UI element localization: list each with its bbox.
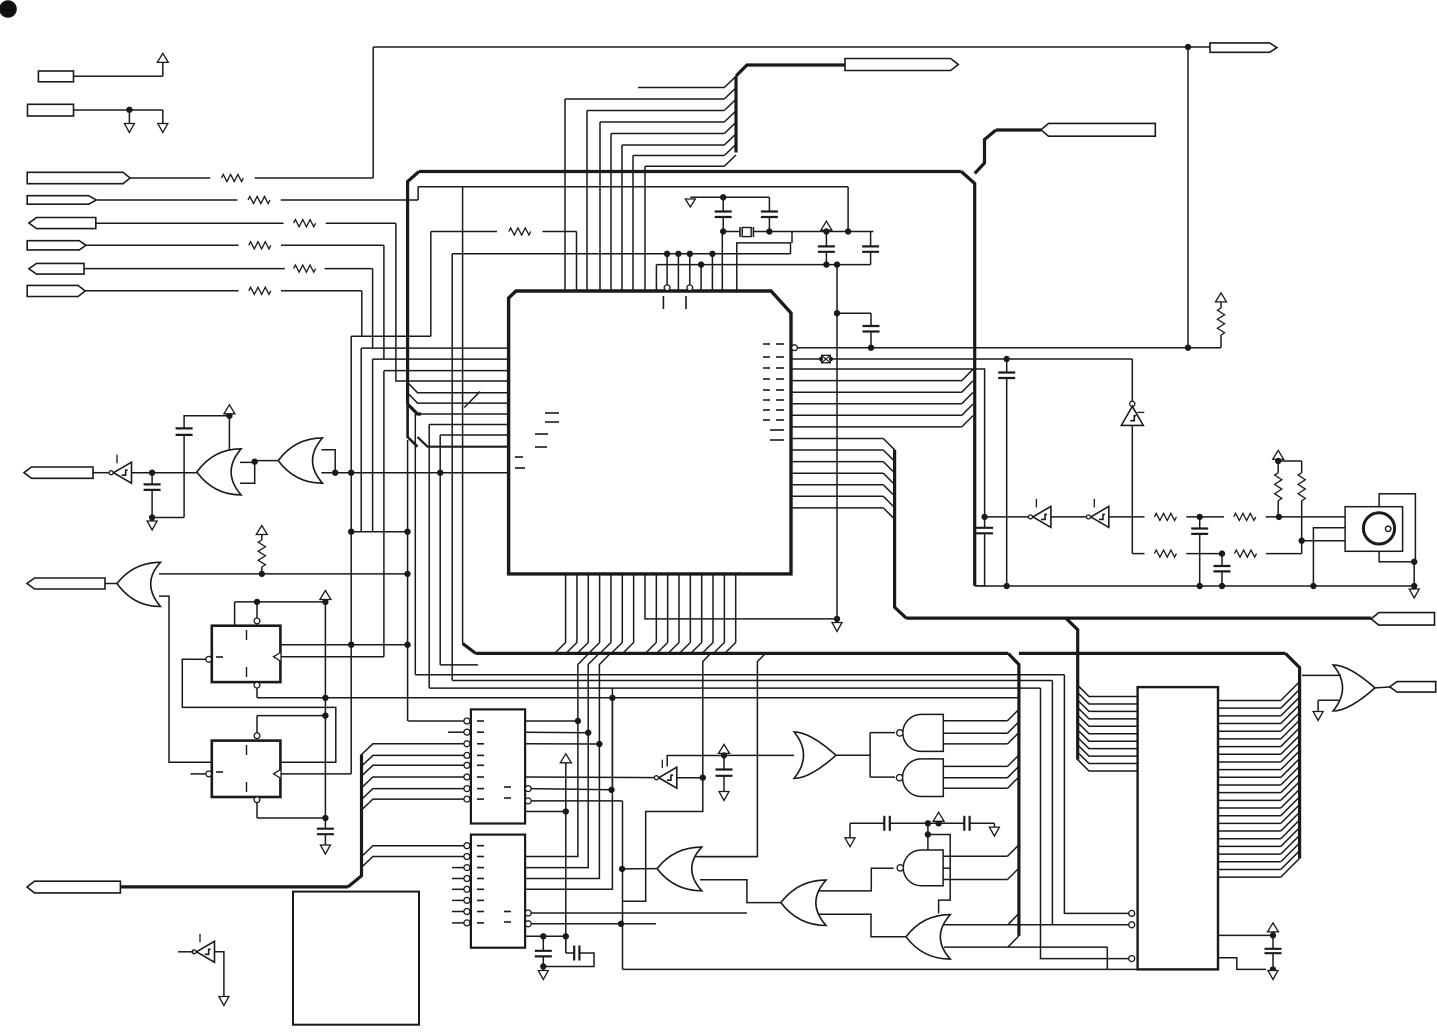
pin bubble r347 [792,345,798,351]
ground arrow G11 [219,997,229,1006]
wire net347 [797,347,1221,349]
wire C3 down [825,252,827,265]
ground arrow G6 [538,971,548,980]
node n702 [700,775,705,780]
node n460 [252,459,257,464]
or gate U14 [781,880,826,925]
wire U15 in1 [944,913,1132,924]
connector box J2 [28,104,74,116]
rail 674 [415,674,1064,676]
wire P5 drop [372,269,374,349]
node n698a [323,695,328,700]
node n253c [687,251,692,256]
fiducial dot [0,1,16,18]
wire osc line [985,516,1028,518]
wire U6 q [280,644,407,646]
wires U13 bus [943,845,1019,880]
connector flag P4 [27,241,86,250]
wire U2 out [132,472,197,474]
wire R8 [1220,301,1222,348]
wire deco rail [850,822,994,824]
node n586d [1311,583,1316,588]
ground arrow G12 [1409,589,1419,598]
node n871 [868,345,873,350]
logic-low arrow 1 [124,124,134,133]
wire U17 in1 [1302,674,1341,676]
wire peel 577 [578,653,589,721]
wire drop 440 [439,435,441,665]
nand gate U12 [896,759,943,797]
ground arrow G8 [989,827,999,836]
wire P3 drop [396,223,509,381]
power arrow V4 [224,405,235,414]
wire CN1 stub1 [408,720,464,722]
node n755 [721,753,726,758]
wire U22 down [1132,425,1144,553]
wire U9 out [622,868,657,870]
wire CN1 right3 [525,743,599,745]
node nosc1 [1197,514,1202,519]
wire CN1 bottom [525,811,566,813]
wire cap drop 1007 [1006,359,1008,373]
wire J2 [74,110,163,124]
node tie-b [405,529,410,534]
node n253b [676,251,681,256]
resistor R2 [248,196,270,203]
wire xnet risers [656,232,722,292]
wire pin424 [429,425,508,689]
wire peel 599 [599,653,610,744]
wires U11 bus [943,709,1019,744]
connector CN2 [471,835,525,948]
capacitor C8 [176,428,193,435]
wire U16 step [1218,958,1266,970]
resistor R3 [294,220,316,227]
power arrow V11 [1273,450,1284,459]
node ndeco3 [925,832,930,837]
or gate U17 [1333,665,1375,711]
power arrow V7 [560,754,571,763]
inverter U22 [1121,406,1144,425]
wire U6 top [235,602,326,626]
wire C5 down [870,332,872,348]
wire U16 b1 [1064,675,1128,914]
bus U1 right [791,369,985,618]
wire CN2 right b [525,733,588,868]
node n415 [227,413,232,418]
bus rail top left bend [408,172,419,405]
node n264c [834,262,839,267]
power arrow V3 [1216,293,1227,302]
capacitor C2 [761,212,778,218]
power arrow V9 [933,812,944,821]
wire C15 [1272,935,1274,970]
wire U4 back [321,450,335,473]
wire rail969 up [1106,947,1108,969]
wire cap1 dn [542,956,544,970]
wire U19 out [215,952,224,997]
wire c7 gnd [152,490,184,518]
capacitor C13 [884,816,890,831]
wire U16 cap net [1218,934,1273,936]
pin bubble t1 [664,285,670,291]
wire U16 b3 [1041,688,1129,959]
or gate U15 [906,915,950,960]
wire net47 [373,46,1210,48]
wire U17 out [1375,686,1390,689]
bus rail mid [906,616,1371,619]
wire R14 [1277,461,1279,517]
bus branch bigbox right [1285,653,1299,858]
wire P12 [105,583,117,585]
or gate U3 [197,449,241,495]
wire clk drop D [350,336,352,774]
wire U6 bottom [256,688,258,698]
wire V11 [1278,459,1302,461]
wire R15 [1301,461,1303,541]
ground arrow G3 [147,521,157,530]
wire U7 top [257,716,325,733]
wire osc line2 [1109,516,1345,518]
wire P3 [96,222,396,224]
wire U10 to U12 [870,776,895,778]
node c1 [575,718,580,723]
wire flag2 feed [975,130,1041,174]
node n47 [1185,44,1190,49]
wire deco gnd r [993,823,995,827]
pin bubble CN1 r1 [525,786,531,792]
wire P3 jog to U1 [384,370,509,372]
node n347a [1185,345,1190,350]
wire net231 left [431,232,577,337]
ground arrow G7 [845,838,855,847]
wire osc gnd pin [1313,528,1345,586]
inverter U2 [109,455,131,484]
wire C17 [1199,517,1201,586]
wire C9 gnd [324,834,326,845]
resistor R12 [1154,550,1176,557]
ground arrow G2 [832,623,842,632]
bus rail top right bend [961,172,974,586]
wire cap2 net [566,936,574,953]
wire cap1 gnd [542,936,544,951]
node n540 [1299,538,1304,543]
wire V8 cap [724,754,794,770]
connector flag P7 [845,59,958,71]
node n573b [405,571,410,576]
node n811 [563,809,568,814]
wire CN1 right4 [525,776,655,779]
resistor R13 [1235,550,1257,557]
wire net47 drop [1187,47,1189,348]
resistor R11 [1234,513,1256,520]
node n601b [323,599,328,604]
power arrow VCC1 [157,53,168,62]
node n936b [563,934,568,939]
connector flag P12 [27,578,105,589]
bus flag13 [120,885,348,888]
wire net359 [791,359,1132,401]
pin bubble U16a [1129,910,1135,916]
wire net313 [837,313,871,326]
wire P6 [85,290,362,292]
wire P6 jog [351,335,431,337]
wire jog 950 [928,835,950,914]
wire CN1 right1 [525,720,578,722]
wire xstep [791,232,793,243]
resistor R4 [249,242,271,249]
IC U18 [293,892,419,1025]
power rail 325 [324,600,326,829]
wire net186 [418,186,848,188]
wire drop B [372,359,374,532]
node n936a [541,934,546,939]
resistor R9 [258,540,265,567]
wire bus chamfer p446 [408,404,509,447]
inverter U19 [192,934,214,963]
capacitor C4 [862,246,879,251]
wire U9 in2 [700,880,781,903]
node n4727 [333,470,338,475]
CN1 pin bubbles [464,718,470,802]
node c2 [586,730,591,735]
rail 969 [623,968,1108,970]
wire U7 bottom [257,803,325,818]
wire clk drop A [383,371,385,657]
node n586b [1197,583,1202,588]
wire U6 left stub [191,658,206,660]
rail 698 [257,697,1019,699]
connector flag P13 [27,881,120,893]
wire J1 to VCC [74,62,163,76]
wire U10 to U11 [870,732,895,734]
wire CN2 r913 [531,912,747,914]
node n935 [1270,933,1275,938]
connector flag P3 [29,218,96,229]
wire net186 drop [847,187,849,232]
wire drop 612 [611,688,613,790]
wire P1 [130,177,373,179]
pin bubble U6b [254,682,260,688]
wire peel 588 [588,653,599,732]
wire pin414 [415,414,508,675]
connector flag P2 [27,196,96,205]
power arrow V6 [320,591,331,600]
node n253a [664,251,669,256]
wire osc start [975,585,986,587]
ground arrow X1 [685,199,695,207]
bus vertical 361 [348,755,362,887]
node n586a [1004,583,1009,588]
wire U6 clk [280,656,384,658]
wire U8 vcc net [667,756,724,767]
bus fan U16 right [1218,682,1300,877]
wire U13 out [818,868,893,891]
wire U10 out [836,733,870,778]
wire 612 low [611,698,613,790]
node n601a [254,599,259,604]
capacitor C17 [1191,529,1208,534]
ground arrow G10 [1313,712,1323,721]
or gate U5 [117,562,161,606]
wire osc line3 [1186,541,1301,554]
wire P1 riser [372,47,374,178]
CN1 pin labels [477,721,511,799]
wire U16 b2 [1051,681,1053,925]
pin bubble U6t [254,618,260,624]
node nosc0 [982,514,987,519]
connector flag P6 [27,285,85,296]
connector flag P5 [29,263,84,274]
ground arrow G5 [719,792,729,801]
CN2 pin bubbles [464,843,470,926]
flip-flop U7 [212,741,281,797]
capacitor C18 [1214,566,1231,571]
bus fan U16 left [1078,685,1138,771]
wire CN1 r801 [531,801,622,970]
wire drop 408 low [407,440,409,721]
node D-644 [349,642,354,647]
wire U5 in2 [159,596,212,762]
pin bubble CN2 r2 [525,921,531,927]
wire bus chamfer p403 [408,393,509,403]
ferrite bead FB1 [819,355,832,363]
connector box J1 [38,71,73,82]
node xb1 [721,229,726,234]
wire V10 [1272,932,1274,936]
capacitor C1 [715,212,732,218]
wire net264 [656,264,870,266]
node n472b [438,470,443,475]
wire U5 in1 [159,573,408,575]
node v2a [824,229,829,234]
wire P5 [84,268,373,270]
wire CN2 r923 [531,923,656,925]
node D-472 [349,470,354,475]
crystal Y1 [740,227,753,237]
wire gnd drop 837 [836,265,838,619]
wire rail969 ext [1107,968,1137,970]
bus branch big box [1066,618,1078,760]
ground arrow G4 [320,845,330,854]
wire U14 in2 [818,914,906,937]
wire U19 stub [178,951,193,953]
rail 586 [975,585,1414,587]
connector flag P10 [1371,613,1434,626]
node n517 [149,515,154,520]
pin bubble CN2 r1 [525,910,531,916]
wire C10 gnd [723,776,725,792]
node c3 [597,741,602,746]
capacitor C14 [964,816,969,831]
capacitor C5 [863,326,880,332]
capacitor C9 [317,829,334,835]
wire V7 [565,763,567,953]
wire P6 drop [361,291,363,337]
node n837a [834,311,839,316]
bus fan CN1 [362,744,464,868]
node n561 [1412,559,1417,564]
wire P11 [93,472,109,474]
connector flag P11 [24,467,93,478]
resistor R10 [1154,513,1176,520]
CN2 stubs [452,868,464,923]
wire bus lower [408,404,418,447]
node nosc2 [1276,514,1281,519]
wire CN1 stub2 [448,731,464,733]
connector flag P8 [1041,123,1155,136]
wire peel 757 [695,653,766,856]
logic-low arrow 2 [158,124,168,133]
wire C4 [870,232,872,265]
pin bubble U7b [254,797,260,803]
node n848 [845,229,850,234]
node n619 [834,616,839,621]
wire xnet bottom [722,217,873,232]
node n359 [1004,356,1009,361]
wires U12 bus [943,755,1019,788]
inverter U20 [1029,499,1051,528]
wire peel 702 [623,653,711,901]
wire slash mark [464,392,480,408]
connector flag P9 [1210,43,1277,52]
inverter U21 [1086,499,1108,528]
bus rail top [419,170,961,173]
wire U7 clk [280,773,351,775]
wire osc v985b [984,533,986,586]
wire U20-U21 [1051,516,1086,518]
node J2 junction [127,107,132,112]
wire cap drop 1007b [1006,378,1008,586]
power arrow V10 [1268,923,1279,932]
capacitor C16 [976,528,993,534]
node n461 [1276,458,1281,463]
node n264a [698,262,703,267]
wire net253 [452,243,790,644]
node ndeco1 [925,821,930,826]
osc frame [1379,494,1415,562]
rail 688 [429,687,1040,689]
pin bubble t2 [687,285,693,291]
wire osc v985 [984,517,986,528]
node n715 [323,713,328,718]
oscillator X2 can [1345,507,1403,552]
capacitor C11 [535,951,552,957]
capacitor C3 [818,246,835,251]
wire bus chamfer p392 [408,383,463,393]
resistor R15 [1298,473,1305,501]
wire xnet top [690,197,769,211]
connector flag P14 [1390,682,1436,693]
capacitor C15 [1265,949,1282,953]
wire CN2 right d [525,790,612,890]
wire U6 loop [182,659,335,762]
wire C18 [1221,554,1223,586]
power arrow V8 [719,744,730,753]
connector CN1 [471,709,525,823]
clock wedge U6 [274,653,281,662]
wire P4 drop [383,245,385,359]
node n966 [541,964,546,969]
wire CN2 right c [525,744,599,879]
wire U17 in2 [1318,700,1339,711]
rail 680 [452,680,1052,682]
ground arrow G9 [1268,971,1278,980]
wire P2 [96,187,418,200]
node n573a [259,571,264,576]
node n586e [1412,583,1417,588]
resistor R1 [221,174,243,181]
